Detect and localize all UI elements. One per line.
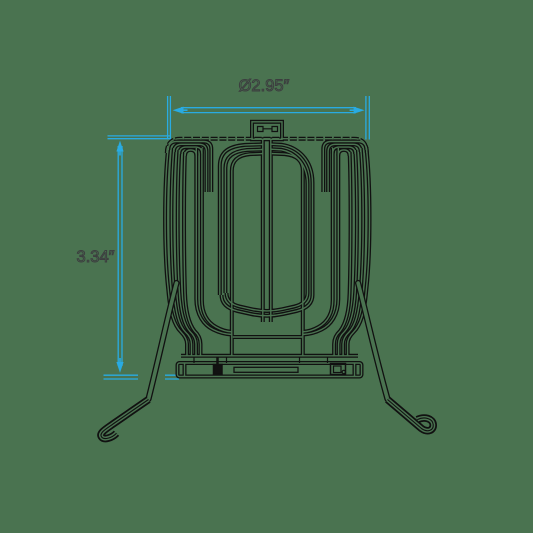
svg-text:Ø2.95″: Ø2.95″ [239, 77, 290, 95]
svg-text:3.34″: 3.34″ [77, 248, 115, 266]
